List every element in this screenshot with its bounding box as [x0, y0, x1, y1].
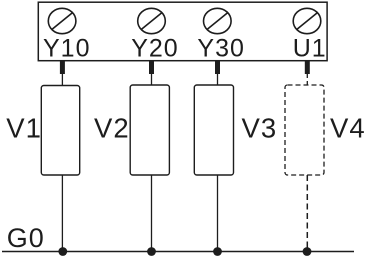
- wire Y10 to V1: [61, 74, 63, 86]
- wire V3 to G0 bus: [217, 175, 219, 252]
- pin stub U1: [305, 61, 310, 74]
- wire U1 to V4 (dashed): [306, 74, 308, 85]
- wire V1 to G0 bus: [61, 175, 63, 252]
- svg-text:V4: V4: [330, 113, 366, 144]
- terminal block outline: [38, 2, 327, 61]
- wire V2 to G0 bus: [151, 175, 153, 252]
- valve coil V1: [41, 86, 79, 176]
- svg-text:Y10: Y10: [43, 35, 90, 63]
- svg-text:G0: G0: [7, 223, 45, 253]
- valve coil V2: [130, 85, 169, 175]
- screw terminal Y30: [204, 8, 232, 33]
- svg-text:Y30: Y30: [197, 35, 244, 63]
- G0 bus: [2, 251, 354, 253]
- screw terminal Y10: [48, 8, 76, 33]
- screw terminal U1: [293, 8, 321, 33]
- valve coil V4 (optional, dashed): [285, 85, 324, 175]
- screw terminal Y20: [138, 8, 166, 33]
- svg-text:U1: U1: [293, 35, 327, 63]
- junction dot V2/G0: [147, 247, 156, 256]
- wire V4 to G0 bus (dashed): [306, 175, 308, 252]
- junction dot V1/G0: [58, 247, 67, 256]
- junction dot V3/G0: [213, 247, 222, 256]
- wire Y30 to V3: [217, 74, 219, 85]
- svg-text:V2: V2: [94, 113, 130, 144]
- valve coil V3: [194, 85, 233, 175]
- svg-text:Y20: Y20: [131, 35, 178, 63]
- svg-text:V1: V1: [6, 113, 42, 144]
- pin stub Y20: [149, 61, 154, 74]
- svg-text:V3: V3: [242, 113, 278, 144]
- pin stub Y10: [60, 61, 65, 74]
- wire Y20 to V2: [151, 74, 153, 85]
- pin stub Y30: [215, 61, 220, 74]
- junction dot V4/G0: [303, 247, 312, 256]
